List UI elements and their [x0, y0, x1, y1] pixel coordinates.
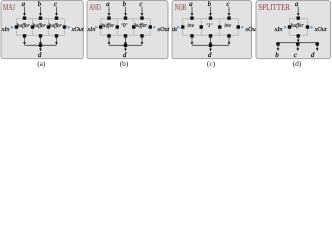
side pin 3 (b) [132, 25, 135, 28]
svg-text:xOut: xOut [71, 26, 84, 33]
xOut arrow (d) [311, 26, 314, 29]
input arrow a (a) [23, 7, 26, 16]
output bus wire (b) [109, 44, 142, 46]
bottom pin 1 (c) [190, 34, 193, 37]
side pin 2 (b) [116, 25, 119, 28]
output arrow c (d) [296, 46, 299, 51]
panel (d) background [256, 1, 331, 59]
top pin 2 (a) [39, 16, 42, 19]
gate box row (a) [17, 19, 65, 35]
svg-text:SPLITTER: SPLITTER [258, 2, 290, 12]
svg-text:xIn: xIn [171, 26, 177, 33]
svg-text:xOut: xOut [156, 26, 169, 33]
bottom pin 3 (c) [227, 34, 230, 37]
bus node right (d) [316, 42, 319, 45]
input arrow a (b) [108, 7, 111, 16]
merge arrow 1 (a) [23, 37, 26, 45]
output arrow d (c) [209, 47, 212, 51]
xIn arrow (c) [177, 26, 180, 29]
svg-text:xIn: xIn [1, 26, 10, 33]
top pin 1 (a) [23, 16, 26, 19]
svg-text:NOR: NOR [175, 2, 187, 12]
svg-text:(d): (d) [293, 59, 302, 68]
panel (a) background [1, 1, 83, 59]
svg-text:(a): (a) [37, 59, 46, 68]
output bus wire (c) [192, 44, 229, 46]
panel (b) background [87, 1, 168, 59]
side pin 1 (b) [99, 25, 102, 28]
bottom pin 1 (b) [107, 34, 110, 37]
svg-text:d: d [38, 51, 42, 59]
xIn arrow (b) [95, 26, 98, 29]
bottom pin 2 (c) [209, 34, 212, 37]
svg-text:(c): (c) [207, 59, 216, 68]
output arrow b (d) [277, 46, 280, 51]
bus junction node (a) [39, 44, 42, 47]
svg-text:inv: inv [187, 23, 194, 29]
svg-text:buffer: buffer [33, 23, 47, 29]
svg-text:buffer: buffer [17, 23, 31, 29]
input arrow b (b) [124, 7, 127, 16]
svg-text:a: a [22, 0, 26, 8]
svg-text:(b): (b) [120, 59, 129, 68]
input arrow c (b) [141, 7, 144, 16]
svg-text:buffer: buffer [49, 23, 63, 29]
side pin 3 (a) [47, 25, 50, 28]
bus node middle (d) [296, 42, 299, 45]
svg-text:d: d [208, 51, 212, 59]
svg-text:‘1’: ‘1’ [206, 23, 213, 29]
output arrow d (d) [316, 46, 319, 51]
merge arrow 2 (b) [124, 37, 127, 45]
svg-text:AND: AND [89, 2, 101, 12]
xOut arrow (c) [241, 26, 244, 29]
merge arrow 2 (c) [209, 37, 212, 45]
side pin 4 (a) [63, 25, 66, 28]
side pin 1 (c) [181, 25, 184, 28]
bottom pin (d) [297, 34, 300, 37]
svg-text:xIn: xIn [87, 26, 96, 33]
svg-text:xIn: xIn [274, 26, 283, 33]
svg-text:xOut: xOut [314, 26, 327, 33]
svg-text:‘0’: ‘0’ [121, 23, 128, 29]
xIn arrow (a) [11, 26, 14, 29]
svg-text:buffer: buffer [134, 23, 148, 29]
left pin (d) [288, 25, 291, 28]
input arrow b (c) [209, 7, 212, 16]
side pin 2 (c) [200, 25, 203, 28]
merge arrow 3 (b) [141, 37, 144, 45]
top pin (d) [297, 16, 300, 19]
merge arrow 1 (b) [108, 37, 111, 45]
svg-text:d: d [123, 51, 127, 59]
buffer box (d) [290, 19, 308, 35]
top pin 3 (a) [55, 16, 58, 19]
merge arrow 1 (c) [191, 37, 194, 45]
input arrow a (c) [191, 7, 194, 16]
side pin 4 (c) [237, 25, 240, 28]
output arrow d (b) [124, 47, 127, 51]
side pin 1 (a) [15, 25, 18, 28]
svg-text:a: a [106, 0, 110, 8]
svg-text:a: a [189, 0, 193, 8]
input arrow c (a) [55, 7, 58, 16]
merge arrow 3 (c) [228, 37, 231, 45]
gate box row (c) [183, 19, 239, 35]
input arrow c (c) [228, 7, 231, 16]
svg-text:MAJ: MAJ [3, 2, 15, 12]
side pin 3 (c) [218, 25, 221, 28]
bottom pin 2 (a) [39, 34, 42, 37]
svg-text:inv: inv [224, 23, 231, 29]
gate box row (b) [101, 19, 151, 35]
bottom pin 3 (a) [55, 34, 58, 37]
bottom pin 3 (b) [140, 34, 143, 37]
top pin 3 (b) [140, 16, 143, 19]
top pin 3 (c) [227, 16, 230, 19]
side pin 4 (b) [149, 25, 152, 28]
xIn arrow (d) [284, 26, 287, 29]
svg-text:b: b [208, 0, 212, 8]
bottom pin 2 (b) [124, 34, 127, 37]
svg-text:d: d [311, 51, 315, 59]
svg-text:b: b [38, 0, 42, 8]
top pin 2 (c) [209, 16, 212, 19]
xOut arrow (b) [153, 26, 156, 29]
input arrow a (d) [297, 7, 300, 16]
input arrow b (a) [39, 7, 42, 16]
bus junction node (c) [209, 44, 212, 47]
svg-text:buffer: buffer [291, 23, 305, 29]
bottom pin 1 (a) [23, 34, 26, 37]
top pin 2 (b) [124, 16, 127, 19]
splitter bus wire (d) [278, 42, 317, 44]
merge arrow 3 (a) [55, 37, 58, 45]
top pin 1 (c) [190, 16, 193, 19]
splitter feed arrow (d) [297, 37, 300, 42]
right pin (d) [306, 25, 309, 28]
top pin 1 (b) [107, 16, 110, 19]
svg-text:buffer: buffer [101, 23, 115, 29]
panel (c) background [172, 1, 252, 59]
side pin 2 (a) [31, 25, 34, 28]
merge arrow 2 (a) [39, 37, 42, 45]
bus node left (d) [276, 42, 279, 45]
bus junction node (b) [124, 44, 127, 47]
svg-text:b: b [123, 0, 127, 8]
output bus wire (a) [25, 44, 57, 46]
xOut arrow (a) [68, 26, 71, 29]
svg-text:b: b [275, 51, 279, 59]
output arrow d (a) [39, 47, 42, 51]
